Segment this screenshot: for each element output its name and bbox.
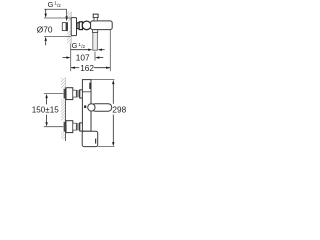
- dimension D70 bottom extension line: [44, 36, 71, 38]
- wall hatch segment c: [61, 132, 66, 140]
- upper union neck: [73, 90, 77, 97]
- dimension 150 upper extension line: [44, 93, 64, 95]
- bottom knob grip tick: [95, 139, 96, 144]
- pipe-center extension line: [94, 52, 96, 61]
- dimension 150 lower arrow: [46, 115, 48, 123]
- wall face line (bottom view): [65, 78, 67, 88]
- dimension 298 bottom arrowhead: [112, 142, 114, 146]
- dimension 162 line left: [71, 67, 80, 69]
- wall hatch segment b: [61, 99, 66, 121]
- svg-text:/2: /2: [57, 3, 61, 8]
- dimension D70 top arrow: [45, 9, 47, 14]
- dimension 107 left arrow: [63, 57, 67, 59]
- knob divider line: [82, 91, 91, 93]
- knob circle (side): [82, 21, 91, 30]
- spout joint circle: [88, 104, 95, 111]
- spout capsule: [92, 104, 112, 112]
- lower union block: [66, 121, 73, 133]
- lever pin dot: [84, 105, 86, 108]
- lower union flange: [64, 122, 66, 132]
- svg-text:G: G: [72, 41, 78, 50]
- lower union neck: [73, 123, 77, 130]
- wall face line: [70, 12, 72, 44]
- label G1/2 top leader arrow: [66, 9, 68, 16]
- svg-text:107: 107: [76, 53, 90, 63]
- svg-text:298: 298: [112, 104, 126, 114]
- dimension 150 upper arrow: [46, 98, 48, 105]
- upper union nut bars: [76, 90, 77, 97]
- knob grip tick: [89, 83, 90, 89]
- dimension 298 bottom extension line: [98, 146, 115, 148]
- dimension 298 top arrowhead: [112, 80, 114, 84]
- wall hatch segment a: [61, 78, 66, 88]
- body-end extension line: [109, 30, 111, 71]
- elbow dark flange band: [66, 23, 68, 31]
- dimension D70 top extension line: [44, 17, 71, 19]
- dimension 107 right arrow: [99, 57, 104, 59]
- body (side): [91, 21, 113, 30]
- svg-text:162: 162: [80, 63, 94, 73]
- dimension 150 lower extension line: [44, 126, 64, 128]
- dimension 162 line right: [94, 67, 110, 69]
- lower union bulge: [80, 123, 85, 131]
- bottom knob: [82, 131, 98, 146]
- svg-text:150±15: 150±15: [32, 105, 59, 114]
- dimension 298 vertical line: [112, 84, 114, 104]
- upper union bulge: [80, 90, 85, 98]
- pipe nut band: [93, 30, 98, 33]
- lower union nut bars: [76, 123, 77, 130]
- svg-text:G: G: [48, 0, 54, 9]
- top outlet stub: [94, 18, 97, 21]
- wall hatch lower segment: [67, 31, 72, 44]
- wall-face extension line: [70, 44, 72, 71]
- label G1/2 bottom underline with right arrow: [71, 49, 89, 51]
- label G1/2 top underline: [44, 8, 66, 10]
- union nut large: [79, 22, 82, 30]
- wall hatch upper segment: [67, 12, 72, 22]
- top outlet rim: [93, 14, 98, 17]
- dimension 298 top extension line: [91, 79, 114, 81]
- svg-text:/2: /2: [81, 44, 85, 49]
- escutcheon: [71, 18, 76, 36]
- body tube (top view): [82, 80, 91, 132]
- upper union block: [66, 88, 73, 100]
- shower outlet pipe: [93, 30, 98, 51]
- union nut small: [77, 23, 79, 29]
- upper union flange: [64, 89, 66, 99]
- supply elbow behind wall: [62, 23, 67, 31]
- svg-text:Ø70: Ø70: [37, 25, 53, 35]
- pipe right-side opposing arrow: [101, 49, 105, 51]
- dimension D70 bottom arrow: [45, 41, 47, 46]
